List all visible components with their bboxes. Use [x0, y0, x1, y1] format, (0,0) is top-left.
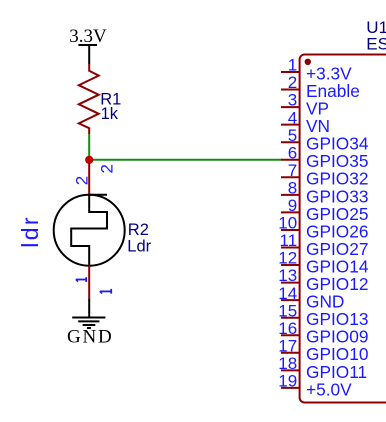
pin 13 stub [281, 282, 300, 284]
svg-text:2: 2 [97, 164, 116, 173]
svg-text:ESP32: ESP32 [366, 34, 386, 53]
pin 6 name GPIO35 [306, 151, 368, 171]
pin 2 name Enable [306, 81, 360, 101]
pin 13 name GPIO12 [306, 274, 368, 294]
junction dot node [85, 156, 93, 164]
svg-text:Ldr: Ldr [127, 238, 151, 256]
pin 10 name GPIO26 [306, 221, 368, 241]
pin 1 stub [281, 71, 300, 73]
label ldr [17, 215, 43, 248]
svg-text:3.3V: 3.3V [69, 26, 107, 47]
pin 8 stub [281, 194, 300, 196]
svg-text:19: 19 [278, 372, 297, 391]
ground symbol [72, 318, 105, 329]
pin 3 stub [281, 106, 300, 108]
pin 6 stub [281, 159, 300, 161]
pin 4 stub [281, 124, 300, 126]
svg-text:6: 6 [288, 143, 297, 162]
net label 2 [97, 164, 116, 173]
wire node to R2 pin [88, 163, 90, 195]
svg-text:7: 7 [288, 161, 297, 180]
pin 17 stub [281, 352, 300, 354]
pin 10 stub [281, 229, 300, 231]
pin 7 number [288, 161, 297, 180]
pin 12 name GPIO14 [306, 256, 369, 276]
wire R1 to node [88, 134, 90, 160]
svg-text:GND: GND [67, 326, 114, 347]
svg-text:16: 16 [278, 319, 297, 338]
pin 13 number [278, 266, 297, 285]
pin 2 stub [281, 89, 300, 91]
wire R2 pin to GND wire [88, 266, 90, 299]
pin 11 number [280, 231, 298, 250]
pin 3 name VP [306, 99, 329, 119]
pin 11 name GPIO27 [306, 239, 368, 259]
net label 1 [100, 289, 111, 294]
svg-text:17: 17 [278, 336, 297, 355]
pin 4 number [288, 108, 297, 127]
svg-text:9: 9 [288, 196, 297, 215]
wire node to pin6 GPIO35 [89, 159, 282, 161]
pin 18 name GPIO11 [306, 362, 367, 382]
pin 1 indicator dot U1 [305, 59, 311, 65]
svg-text:14: 14 [278, 284, 297, 303]
pin 14 name GND [306, 292, 344, 312]
pin 5 stub [281, 141, 300, 143]
pin number 2 of R2 [72, 176, 91, 185]
svg-text:1: 1 [288, 56, 297, 75]
svg-text:+5.0V: +5.0V [306, 379, 352, 399]
pin 19 name +5.0V [306, 379, 352, 399]
svg-text:11: 11 [280, 231, 298, 250]
wire power to R1 [88, 45, 90, 64]
power terminal bar [78, 44, 97, 46]
pin 18 number [278, 354, 297, 373]
pin 7 stub [281, 176, 300, 178]
pin 7 name GPIO32 [306, 169, 368, 189]
svg-text:8: 8 [288, 178, 297, 197]
pin 2 number [288, 73, 297, 92]
pin 8 number [288, 178, 297, 197]
pin 16 name GPIO09 [306, 327, 368, 347]
pin number 1 of R2 [76, 277, 86, 282]
pin 17 number [278, 336, 297, 355]
pin 8 name GPIO33 [306, 186, 368, 206]
svg-text:1k: 1k [101, 105, 119, 123]
label GND [67, 326, 114, 347]
pin 6 number [288, 143, 297, 162]
svg-text:13: 13 [278, 266, 297, 285]
svg-text:3: 3 [288, 91, 297, 110]
pin 15 name GPIO13 [306, 309, 368, 329]
pin 16 number [278, 319, 297, 338]
pin 5 number [288, 126, 297, 145]
pin 10 number [278, 214, 297, 233]
svg-text:R2: R2 [128, 221, 149, 239]
label ESP32 [366, 34, 386, 53]
pin 12 stub [281, 264, 300, 266]
pin 17 name GPIO10 [306, 344, 368, 364]
LDR R2 meander symbol [71, 195, 107, 266]
pin 19 number [278, 372, 297, 391]
pin 19 stub [281, 387, 300, 389]
svg-text:ldr: ldr [17, 215, 43, 248]
svg-text:2: 2 [288, 73, 297, 92]
label R2 [128, 221, 149, 239]
label Ldr [127, 238, 151, 256]
pin 4 name VN [306, 116, 330, 136]
svg-text:15: 15 [278, 301, 297, 320]
power label 3.3V [69, 26, 107, 47]
pin 9 number [288, 196, 297, 215]
pin 3 number [288, 91, 297, 110]
pin 15 stub [281, 317, 300, 319]
label R1 [100, 90, 121, 108]
label U1 [366, 18, 386, 37]
pin 14 stub [281, 299, 300, 301]
pin 1 name +3.3V [306, 63, 352, 83]
wire to GND terminal [88, 298, 90, 317]
pin 5 name GPIO34 [306, 134, 369, 154]
pin 1 number [288, 56, 297, 75]
pin 11 stub [281, 247, 300, 249]
svg-text:4: 4 [288, 108, 297, 127]
pin 9 stub [281, 211, 300, 213]
pin 14 number [278, 284, 297, 303]
pin 16 stub [281, 334, 300, 336]
pin 9 name GPIO25 [306, 204, 368, 224]
svg-text:12: 12 [278, 249, 297, 268]
pin 18 stub [281, 369, 300, 371]
label 1k [101, 105, 119, 123]
svg-text:10: 10 [278, 214, 297, 233]
pin 15 number [278, 301, 297, 320]
svg-text:5: 5 [288, 126, 297, 145]
IC U1 body [300, 55, 386, 403]
LDR R2 circle [54, 195, 125, 266]
pin 12 number [278, 249, 297, 268]
resistor R1 [79, 64, 99, 134]
svg-text:18: 18 [278, 354, 297, 373]
